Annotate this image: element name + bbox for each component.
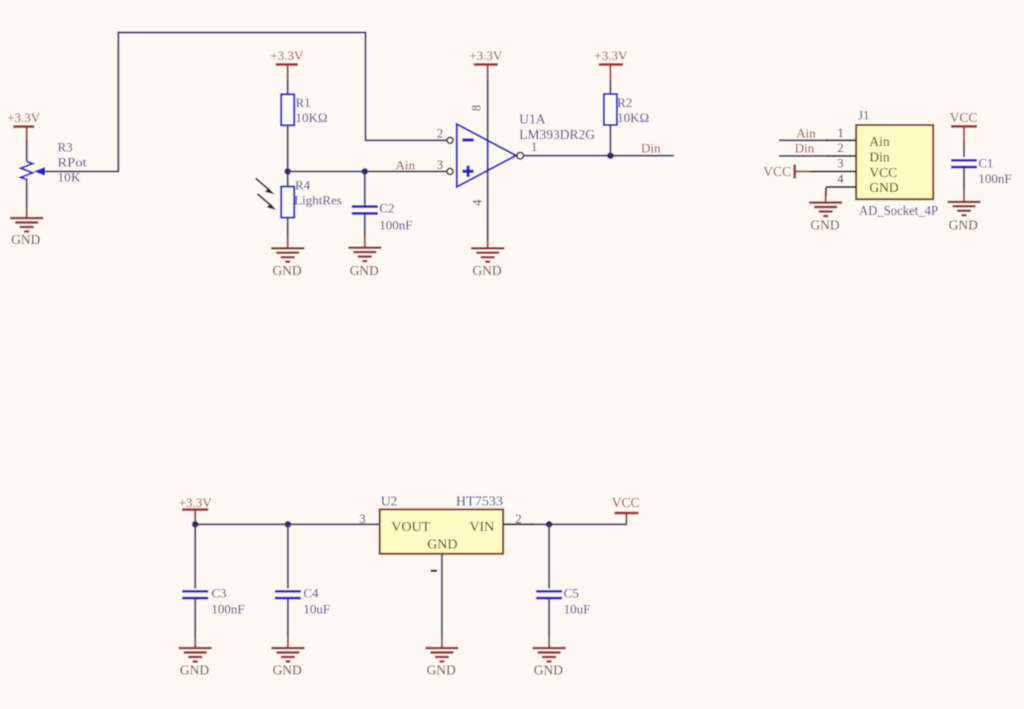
svg-text:GND: GND [427,662,456,677]
svg-text:RPot: RPot [58,155,87,170]
wire C4 bottom pin [287,599,289,637]
designator U2 [381,494,398,509]
regulator U2 box [380,509,503,553]
power +3.3V (R2) [594,48,628,81]
net label Din (J1) [795,141,815,156]
svg-text:VIN: VIN [469,520,494,535]
svg-text:GND: GND [472,263,501,278]
svg-text:10KΩ: 10KΩ [296,110,328,125]
value LM393DR2G [519,127,595,142]
wire J1 pin4 [826,187,856,196]
ground GND (C1) [948,190,981,233]
wire C3 bottom pin [194,599,196,637]
svg-text:100nF: 100nF [379,217,412,232]
resistor R1 10K [281,94,327,125]
wire U1A pin4 vertical [487,170,489,240]
svg-text:AD_Socket_4P: AD_Socket_4P [859,203,938,218]
svg-text:C3: C3 [211,585,226,600]
svg-text:VCC: VCC [869,165,897,180]
svg-text:VCC: VCC [950,110,978,125]
wire J1 pin3 [811,170,856,172]
capacitor C5 10uF [536,585,590,616]
U1A pin2 input circle [447,137,453,143]
capacitor C1 100nF [951,156,1012,186]
svg-text:R3: R3 [58,140,73,155]
svg-text:GND: GND [427,537,457,552]
svg-text:U1A: U1A [519,111,545,126]
wire J1 pin2 (Din) [779,155,856,157]
ground GND (C2) [348,236,381,278]
pin name GND [869,180,898,195]
svg-text:10KΩ: 10KΩ [617,110,649,125]
svg-text:GND: GND [272,263,301,278]
value AD_Socket_4P [859,203,938,218]
capacitor C2 100nF [352,201,413,233]
node Din junction [607,152,614,159]
pin number 2 [437,127,443,141]
pin number 3 (J1) [837,157,843,171]
svg-text:Ain: Ain [396,157,416,172]
svg-text:GND: GND [273,662,302,677]
svg-text:R1: R1 [296,95,311,110]
U1A output circle [517,152,524,159]
U1A pin3 input circle [447,168,453,174]
pin name Ain [869,134,890,149]
svg-text:GND: GND [350,263,379,278]
wire C1 top pin [963,143,965,157]
wire R4 bottom pin [287,218,289,237]
svg-text:VOUT: VOUT [391,520,430,535]
svg-text:Ain: Ain [869,134,890,149]
wire down to U1A pin2 [365,32,367,142]
pin number 3 (U2) [359,512,365,526]
ground GND (U2) [425,636,458,677]
pin name VOUT [391,520,430,535]
connector J1 box [856,125,933,199]
op-amp U1A LM393DR2G [457,124,516,187]
wire U1A pin8 vertical [487,80,489,141]
power +3.3V (U1A pin8) [469,48,503,81]
svg-text:+3.3V: +3.3V [469,48,503,63]
svg-text:R4: R4 [295,177,311,192]
svg-text:3: 3 [837,157,843,171]
svg-text:+3.3V: +3.3V [594,48,628,63]
wire R3 bottom pin [26,181,28,207]
ground GND (C4) [271,636,304,677]
svg-text:3: 3 [359,512,365,526]
svg-text:Din: Din [795,141,815,156]
net label Ain (J1) [796,126,816,141]
wire C2 top pin [364,171,366,205]
designator U1A [519,111,545,126]
pin number 4 [470,199,484,206]
svg-text:2: 2 [437,127,443,141]
svg-text:3: 3 [437,158,443,172]
svg-text:2: 2 [515,512,521,526]
svg-text:GND: GND [180,662,209,677]
power +3.3V (bottom rail) [179,495,213,525]
svg-text:VCC: VCC [763,164,791,179]
ground GND (C5) [533,636,566,677]
resistor R2 10K [604,94,649,125]
ground GND (R4) [271,236,304,277]
svg-text:U2: U2 [381,494,398,509]
wire R2 bottom pin [609,125,611,156]
pin name VCC [869,165,897,180]
wire C5 bottom pin [548,599,550,637]
svg-text:C4: C4 [303,585,319,600]
wire top rail horizontal [117,32,366,34]
svg-text:8: 8 [470,105,484,111]
svg-text:VCC: VCC [612,495,640,510]
svg-text:10uF: 10uF [564,602,591,617]
svg-text:+3.3V: +3.3V [270,48,304,63]
capacitor C4 10uF [275,585,330,616]
power +3.3V (R1) [270,48,304,81]
node VCC/C5 [546,521,553,528]
wire C5 top pin [548,524,550,588]
wire U2 pin2 [503,523,627,525]
resistor R3 (RPot 10K) [21,140,87,185]
capacitor C3 100nF [182,585,244,616]
svg-text:C1: C1 [978,156,993,171]
svg-text:Ain: Ain [796,126,816,141]
pin number 1 (U2 GND, rotated) [431,570,438,572]
pin number 1 [531,140,537,154]
svg-text:1: 1 [531,140,537,154]
svg-text:GND: GND [810,217,839,232]
power +3.3V (R3) [7,110,41,142]
svg-text:GND: GND [534,662,563,677]
node rail/C4 [285,521,292,528]
svg-text:LM393DR2G: LM393DR2G [519,127,595,142]
R4 light arrows [256,178,277,210]
wire U2 GND pin [441,554,443,637]
net label Ain [396,157,416,172]
svg-text:4: 4 [837,172,844,186]
value HT7533 [456,494,503,509]
ground GND (J1) [809,191,842,233]
wire C1 bottom pin [963,168,965,191]
pin number 1 (J1) [837,126,843,140]
svg-text:LightRes: LightRes [294,193,342,208]
wire R1 top pin [287,80,289,94]
net label Din [641,141,661,156]
pin name VIN [469,520,494,535]
power VCC (bottom) [612,495,640,525]
svg-text:100nF: 100nF [211,602,244,617]
wire C4 top pin [287,524,289,588]
svg-text:1: 1 [837,126,843,140]
svg-text:J1: J1 [858,108,870,123]
svg-text:4: 4 [470,199,484,206]
wire R2 top pin [609,80,611,94]
svg-text:GND: GND [11,232,40,247]
wire Ain horizontal [288,170,447,172]
pin number 3 [437,158,443,172]
pin number 2 (U2) [515,512,521,526]
wire R3 top pin [26,141,28,162]
svg-text:R2: R2 [617,95,632,110]
designator J1 [858,108,870,123]
svg-text:10uF: 10uF [303,602,330,617]
ground GND (R3) [10,206,43,247]
pin number 8 [470,105,484,111]
pin number 2 (J1) [837,141,843,155]
svg-text:GND: GND [949,217,978,232]
U1A internal power line [487,141,489,171]
node Ain junction at R1/R4 [284,168,291,175]
svg-text:100nF: 100nF [978,171,1011,186]
svg-text:Din: Din [641,141,661,156]
wire to U1A pin 2 [366,139,448,141]
svg-text:+3.3V: +3.3V [7,110,41,125]
wire C3 top pin [194,524,196,588]
node rail/C3 [192,521,199,528]
ground GND (U1A) [471,236,504,277]
svg-text:C2: C2 [379,201,394,216]
svg-text:C5: C5 [564,585,579,600]
power VCC (J1 pin3) [763,164,812,179]
pin number 4 (J1) [837,172,844,186]
wire 3.3V rail [195,523,380,525]
wire R1 bottom to node [287,125,289,187]
wire J1 pin1 (Ain) [779,139,856,141]
svg-text:GND: GND [869,180,898,195]
pin name Din [869,150,890,165]
wire U1A output [524,155,674,157]
wire C2 bottom pin [364,215,366,237]
node Ain junction at C2 [362,168,369,175]
svg-text:+3.3V: +3.3V [179,495,213,510]
svg-text:Din: Din [869,150,890,165]
svg-text:HT7533: HT7533 [456,494,503,509]
power VCC (C1) [950,110,978,144]
R3 wiper arrow [34,167,118,176]
svg-text:2: 2 [837,141,843,155]
resistor R4 LightRes [281,177,342,217]
ground GND (C3) [179,636,212,677]
wire pot to top rail vertical [117,32,119,173]
pin name GND (U2) [427,537,457,552]
